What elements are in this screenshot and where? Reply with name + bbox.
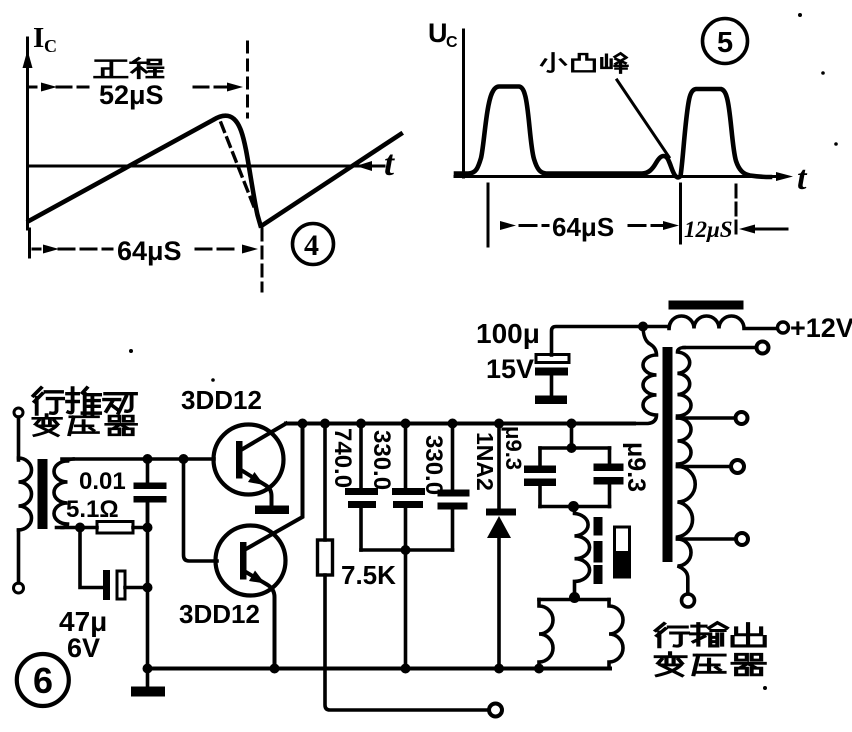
scan speck [821, 71, 825, 75]
width coil assembly left side [539, 600, 553, 669]
node at 0.01 branch [143, 454, 153, 464]
capacitor 100u negative plate [535, 368, 568, 376]
node at base split [179, 454, 189, 464]
64us left arrowhead fig4 [43, 245, 59, 254]
tap 2 terminal [736, 412, 748, 424]
12us right arrowhead and tail [754, 228, 787, 231]
base wire [62, 457, 214, 461]
12us right tick dashed [735, 185, 738, 236]
width coil assembly top edge [539, 598, 609, 602]
dashed vertical at 52us mark [246, 42, 249, 117]
tap 4 wire [678, 537, 736, 541]
tap 3 wire [678, 465, 732, 469]
transformer core (driver) [38, 459, 48, 529]
svg-text:5: 5 [717, 27, 733, 59]
64us fig5 right arrowhead [663, 221, 679, 230]
coil dashed core segment 3 [594, 565, 603, 584]
bottom rail [148, 667, 611, 671]
capacitor 47u positive plate [117, 571, 125, 599]
+12V winding [669, 316, 777, 329]
sawtooth waveform fig4 [29, 116, 261, 226]
Q2 base wire from split [184, 459, 218, 561]
main left rail vertical [146, 503, 150, 669]
64us fig5 left arrowhead [500, 221, 516, 230]
Ic axis arrowhead [23, 50, 33, 68]
output transformer core [663, 347, 673, 562]
64us right arrowhead fig4 [242, 245, 258, 254]
47u branch left vertical [80, 528, 104, 588]
node at left winding top [638, 322, 648, 332]
svg-text:7.5K: 7.5K [341, 560, 396, 590]
svg-text:0.01: 0.01 [79, 468, 126, 495]
capacitor 0.01 lead bottom [146, 503, 150, 528]
svg-text:t: t [384, 143, 395, 183]
top rail [286, 422, 634, 426]
node C 0.047 [356, 419, 366, 429]
tap 1 terminal [757, 342, 769, 354]
svg-text:C: C [446, 34, 458, 51]
svg-text:t: t [797, 160, 808, 197]
node 0.033a at bottom rail [401, 664, 411, 674]
svg-text:C: C [44, 36, 57, 56]
t axis fig5 [455, 175, 780, 178]
node 7.5K [320, 419, 330, 429]
svg-text:100μ: 100μ [476, 318, 540, 349]
diode 2AN1 [497, 424, 501, 510]
bridge cap branch wire [570, 424, 574, 449]
transistor Q2 [216, 526, 286, 596]
node Q2 collector [298, 419, 308, 429]
node C 0.033b [448, 419, 458, 429]
linearity coil vertical [575, 507, 590, 598]
node 5.1 left [75, 523, 85, 533]
circled 6 [17, 654, 69, 706]
svg-text:+12V: +12V [790, 313, 852, 343]
svg-text:4: 4 [304, 229, 319, 262]
scan speck [798, 13, 802, 17]
52us dimension line [29, 86, 235, 89]
resistor 7.5K bottom wire to terminal [325, 575, 489, 710]
resistor 5.1 right lead [133, 526, 148, 530]
output transformer top core bar [669, 301, 744, 310]
dashed vertical 64us right fig4 [261, 229, 264, 291]
driver transformer label [33, 388, 136, 436]
node joining wire [401, 545, 411, 555]
output transformer label [656, 623, 765, 676]
output transformer left winding [634, 327, 657, 424]
terminal T1 top-left [14, 408, 23, 417]
label zhengcheng [95, 61, 126, 78]
Q2 emitter arrowhead [249, 571, 265, 584]
svg-text:3DD12: 3DD12 [179, 599, 260, 629]
capacitor 0.033a [404, 424, 408, 489]
svg-text:12μS: 12μS [684, 217, 733, 242]
12us left tick [679, 184, 682, 243]
Ic axis vertical [26, 38, 29, 229]
coil dashed core segment 2 [594, 541, 603, 563]
svg-text:740.0: 740.0 [329, 428, 356, 488]
64us dim fig5 line [520, 224, 664, 227]
wire T1 to primary [17, 417, 21, 460]
ground stub [146, 669, 150, 688]
svg-text:6V: 6V [67, 633, 100, 663]
ground bar [131, 687, 165, 697]
adjustable slug filled half [615, 551, 630, 577]
ramp 2 fig4 [262, 134, 401, 226]
tap 2 wire [678, 416, 736, 420]
bottom winding terminal [682, 594, 695, 607]
Q2 emitter [245, 572, 275, 669]
svg-text:52μS: 52μS [99, 80, 164, 110]
pulse waveform fig5 [456, 87, 770, 178]
Q1 base bar [236, 441, 243, 479]
bridge bottom wire [540, 505, 610, 509]
terminal T2 bottom-left [14, 583, 24, 593]
47u right lead [125, 586, 148, 590]
pointer line to small bump [617, 80, 669, 157]
100u bottom lead [550, 376, 554, 396]
svg-text:μ9.3: μ9.3 [501, 426, 526, 470]
t axis arrowhead fig5 [776, 172, 793, 181]
64us dimension fig4 [28, 229, 31, 257]
node assembly left corner [534, 664, 544, 674]
Uc axis vertical [462, 30, 465, 177]
svg-text:3DD12: 3DD12 [181, 385, 262, 415]
scan speck [211, 378, 215, 382]
secondary bottom wire [57, 526, 98, 530]
scan speck [129, 349, 133, 353]
node bottom-left [143, 664, 153, 674]
node C 0.033a [401, 419, 411, 429]
Q2 collector diagonal and vertical [246, 424, 303, 550]
node 47u right [143, 583, 153, 593]
64us dim fig5 left tick [487, 184, 490, 246]
svg-text:5.1Ω: 5.1Ω [66, 496, 119, 523]
scan speck [834, 142, 838, 146]
svg-text:330.0: 330.0 [420, 435, 447, 495]
capacitor 0.033b [451, 424, 455, 490]
svg-text:64μS: 64μS [117, 236, 182, 266]
bridge top wire [540, 446, 610, 450]
node bridge [567, 419, 577, 429]
tap 4 terminal [736, 533, 748, 545]
width coil assembly right side [609, 600, 623, 669]
svg-text:μ9.3: μ9.3 [622, 442, 650, 492]
Q2 base bar [240, 542, 247, 580]
capacitor 100u positive plate [536, 355, 569, 363]
svg-text:6: 6 [33, 660, 53, 701]
tap 1 wire [684, 346, 756, 350]
wire 100u to transformer [552, 327, 670, 356]
svg-text:15V: 15V [486, 354, 534, 384]
dashed retrace fig4 [221, 123, 256, 212]
bridge left cap [538, 448, 542, 466]
Q1 emitter [241, 470, 272, 506]
bridge right cap [608, 448, 612, 464]
node coil bottom [569, 592, 580, 603]
terminal drive [489, 704, 502, 717]
100u ground bar [535, 396, 567, 405]
t axis arrowhead fig4 [356, 161, 372, 171]
capacitor 0.047 [359, 424, 363, 489]
52us left arrowhead [41, 83, 57, 92]
transformer secondary winding [54, 459, 73, 528]
capacitor 47u negative plate [103, 570, 110, 600]
output transformer right winding [678, 348, 696, 595]
label xiaotufeng [542, 53, 566, 71]
svg-text:330.0: 330.0 [368, 430, 395, 490]
node Q2 emitter at rail [270, 664, 280, 674]
transformer T1 primary winding [19, 458, 32, 530]
resistor 7.5K [318, 540, 333, 575]
node bridge top [567, 443, 577, 453]
node diode [494, 419, 504, 429]
Q1 emitter arrowhead [248, 472, 264, 485]
scan speck [763, 686, 767, 690]
node diode at bottom rail [494, 664, 504, 674]
capacitor 0.01 plates [134, 483, 167, 490]
resistor 7.5K top lead [323, 424, 327, 541]
svg-text:U: U [428, 18, 448, 48]
svg-text:1NA2: 1NA2 [472, 432, 498, 491]
transistor Q1 [214, 425, 284, 495]
caps joining wire [361, 548, 453, 552]
svg-text:64μS: 64μS [552, 212, 614, 242]
node bridge bottom [568, 501, 579, 512]
circled 5 [703, 19, 748, 64]
coil dashed core segment 1 [594, 517, 603, 536]
wire primary to T2 [17, 530, 21, 583]
resistor 5.1 ohm [97, 522, 133, 534]
capacitor 0.01 lead top [146, 459, 150, 483]
svg-text:I: I [33, 22, 44, 54]
+12V terminal [778, 322, 789, 333]
adjustable slug outline [615, 527, 630, 577]
Q1 collector [241, 424, 286, 451]
Q1 emitter bar [255, 506, 289, 515]
t axis fig4 [28, 165, 385, 168]
node 5.1 right [143, 523, 153, 533]
52us right arrowhead [227, 83, 243, 92]
tap 3 terminal [731, 460, 744, 473]
circled 4 [293, 224, 334, 265]
